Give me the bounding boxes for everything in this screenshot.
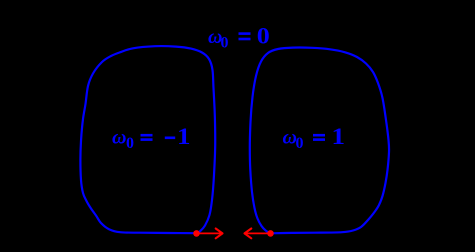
svg-text:0: 0 <box>296 135 304 152</box>
svg-text:1: 1 <box>332 124 346 149</box>
label omega0 = -1 (inside left curve) <box>112 124 191 152</box>
label omega0 = 0 (top center) <box>208 24 270 52</box>
right closed curve (omega0 = 1 region boundary) <box>250 47 389 233</box>
label omega0 = 1 (inside right curve) <box>283 124 346 152</box>
red saddle point marker (left) <box>193 230 200 237</box>
svg-text:0: 0 <box>221 35 229 52</box>
svg-text:0: 0 <box>257 24 270 49</box>
red arrow pointing left (right marker) <box>245 229 269 239</box>
left closed curve (omega0 = -1 region boundary) <box>80 46 215 233</box>
svg-text:ω: ω <box>112 127 126 149</box>
red arrow pointing right (left marker) <box>199 229 223 239</box>
svg-text:1: 1 <box>177 124 191 149</box>
svg-text:0: 0 <box>126 135 134 152</box>
red saddle point marker (right) <box>267 230 274 237</box>
